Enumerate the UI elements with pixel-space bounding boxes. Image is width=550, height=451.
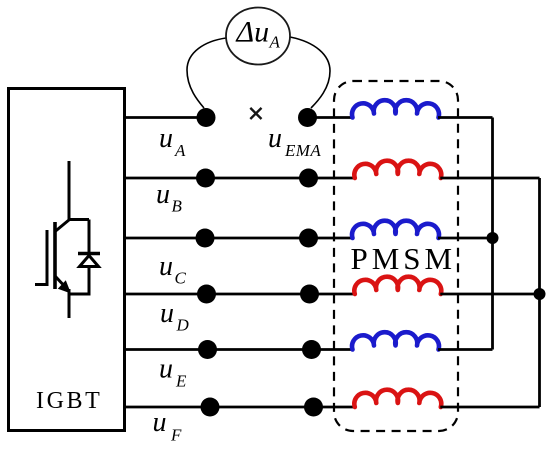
node D right: [300, 285, 319, 304]
svg-text:u: u: [153, 407, 167, 438]
node C left: [196, 229, 215, 248]
svg-text:Δu: Δu: [236, 16, 270, 49]
wire phase B: [125, 177, 356, 180]
node E right: [302, 340, 321, 359]
svg-text:u: u: [159, 354, 173, 385]
node F right: [304, 398, 323, 417]
transistor Q1 gate bar: [46, 230, 49, 286]
transistor Q1 emitter diagonal: [55, 276, 69, 291]
inductor L1 (phase A winding): [352, 100, 439, 117]
voltage source ΔuA circle: [226, 8, 290, 65]
wire measurement lead left (curve): [187, 38, 226, 108]
inductor L6 (phase F winding): [354, 390, 441, 407]
node A left terminal: [197, 108, 216, 127]
node F left: [201, 398, 220, 417]
wire phase E: [125, 348, 354, 351]
wire phase B to bus 2: [440, 177, 539, 180]
transistor Q1 collector diagonal: [55, 220, 70, 232]
node A right terminal: [298, 108, 317, 127]
svg-text:C: C: [175, 269, 187, 288]
wire phase F to bus 2: [440, 406, 539, 409]
wire phase A to bus 1: [438, 116, 493, 119]
wire phase C: [125, 237, 354, 240]
inductor L3 (phase C winding): [352, 221, 439, 238]
wire phase D: [125, 293, 356, 296]
node C right: [299, 229, 318, 248]
transistor Q1 emitter lead: [68, 289, 71, 318]
junction bus1/phase C: [487, 232, 499, 244]
wire phase D to bus 2: [440, 293, 539, 296]
node B right: [299, 169, 318, 188]
wire measurement lead right (curve): [290, 37, 330, 108]
transistor Q1 collector lead: [68, 161, 71, 220]
inductor L4 (phase D winding): [354, 277, 441, 294]
svg-text:A: A: [269, 33, 281, 52]
svg-text:u: u: [156, 179, 170, 210]
diode D1 cathode bar: [78, 252, 100, 255]
svg-text:PMSM: PMSM: [351, 241, 457, 276]
svg-text:u: u: [160, 298, 174, 329]
svg-text:IGBT: IGBT: [36, 388, 102, 414]
svg-text:D: D: [176, 316, 190, 335]
svg-text:B: B: [172, 197, 183, 216]
svg-text:u: u: [268, 123, 282, 154]
wire phase C to bus 1: [438, 237, 493, 240]
svg-text:E: E: [175, 372, 187, 391]
wire diode loop right upper: [88, 220, 91, 254]
junction bus2/phase D: [534, 288, 546, 300]
wire phase A left segment (IGBT to node): [125, 116, 206, 119]
wire phase F: [125, 406, 356, 409]
node B left: [196, 169, 215, 188]
svg-text:EMA: EMA: [284, 141, 321, 160]
svg-text:u: u: [159, 123, 173, 154]
node D left: [197, 285, 216, 304]
PMSM stator boundary (dashed): [334, 81, 458, 431]
IGBT inverter box: [9, 89, 125, 431]
transistor Q1 body bar: [53, 222, 57, 289]
fault mark x (open phase): [250, 108, 261, 119]
node E left: [198, 340, 217, 359]
transistor Q1 emitter arrowhead: [58, 280, 71, 293]
wire diode loop bottom: [68, 293, 90, 296]
wire diode loop right lower: [88, 266, 91, 296]
transistor Q1 gate lead: [35, 283, 47, 286]
diode D1 triangle: [80, 256, 99, 267]
svg-text:A: A: [174, 141, 186, 160]
wire bus 1 (neutral of winding set 1): [491, 118, 494, 350]
wire bus 2 (neutral of winding set 2): [538, 178, 541, 407]
svg-text:u: u: [159, 251, 173, 282]
inductor L2 (phase B winding): [354, 161, 441, 178]
wire phase A right segment (node to coil): [308, 116, 355, 119]
wire phase E to bus 1: [438, 348, 493, 351]
inductor L5 (phase E winding): [352, 332, 439, 349]
wire diode loop top: [68, 218, 90, 221]
svg-text:F: F: [170, 426, 182, 445]
